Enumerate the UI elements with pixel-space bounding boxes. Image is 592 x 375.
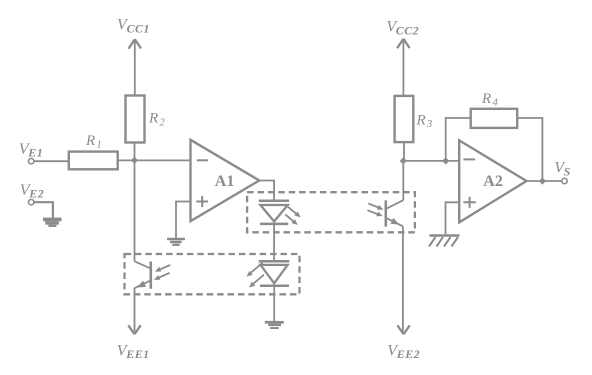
svg-text:1: 1 bbox=[97, 140, 102, 151]
label R2 bbox=[148, 111, 166, 129]
op-amp A1 bbox=[191, 140, 260, 221]
phototransistor T2 light arrows bbox=[367, 203, 383, 216]
node C junction dot bbox=[442, 157, 449, 164]
wire node B down to phototransistor T2 bbox=[402, 161, 404, 200]
LED D1 bbox=[259, 201, 289, 224]
power VEE1 label bbox=[117, 342, 150, 361]
wire VE1 to R1 bbox=[34, 160, 69, 162]
terminal VE2 bbox=[29, 200, 34, 205]
ground D2 bbox=[265, 321, 284, 329]
wire R4 to A2 output bbox=[517, 118, 542, 181]
wire R1 to A1 inverting input bbox=[118, 159, 191, 161]
svg-text:3: 3 bbox=[426, 119, 432, 130]
wire node C up to R4 bbox=[446, 118, 471, 161]
node B junction dot bbox=[400, 157, 407, 164]
svg-text:R: R bbox=[481, 91, 491, 107]
output VS label bbox=[554, 160, 570, 179]
chassis ground A2 bbox=[429, 236, 460, 247]
svg-text:EE1: EE1 bbox=[125, 347, 149, 361]
phototransistor T2 bbox=[386, 200, 404, 226]
node D junction dot bbox=[539, 177, 546, 184]
svg-text:EE2: EE2 bbox=[396, 347, 420, 361]
LED D2 light arrows bbox=[247, 263, 265, 288]
optocoupler box T1/D2 bbox=[125, 254, 300, 294]
wire R3 to node B bbox=[403, 142, 405, 161]
resistor R4 bbox=[471, 109, 518, 128]
wire A2 non-inverting input to ground bbox=[446, 202, 460, 234]
op-amp A2 bbox=[459, 140, 526, 222]
terminal VS bbox=[562, 178, 567, 183]
power VEE1 arrow bbox=[128, 325, 140, 334]
input VE1 label bbox=[19, 141, 43, 160]
wire A1 non-inverting input to ground bbox=[176, 202, 191, 238]
svg-text:E2: E2 bbox=[28, 186, 44, 200]
optocoupler box D1/T2 bbox=[247, 192, 415, 232]
svg-text:CC2: CC2 bbox=[396, 23, 419, 37]
terminal VE1 bbox=[29, 159, 34, 164]
svg-text:E1: E1 bbox=[27, 145, 43, 159]
phototransistor T1 light arrows bbox=[154, 265, 171, 280]
wire node A down to phototransistor T1 bbox=[134, 160, 136, 261]
input VE2 label bbox=[20, 182, 44, 200]
LED D2 bbox=[259, 261, 290, 285]
wire D1 to D2 bbox=[273, 224, 275, 261]
wire R2 bottom to node A bbox=[134, 143, 136, 161]
ground VE2 bbox=[43, 218, 62, 227]
power VCC1 label bbox=[117, 17, 150, 36]
wire D2 to ground bbox=[273, 286, 275, 321]
svg-text:R: R bbox=[416, 113, 426, 129]
svg-text:CC1: CC1 bbox=[127, 22, 150, 36]
resistor R1 bbox=[69, 152, 118, 170]
svg-text:2: 2 bbox=[160, 118, 166, 129]
wire VE2 to ground bbox=[34, 202, 53, 217]
svg-text:4: 4 bbox=[493, 97, 499, 108]
wire node B to A2 inverting input bbox=[403, 160, 459, 162]
LED D1 light arrows bbox=[285, 207, 300, 225]
resistor R3 bbox=[395, 96, 414, 142]
label R4 bbox=[481, 91, 499, 109]
label R3 bbox=[416, 113, 433, 131]
resistor R2 bbox=[126, 96, 145, 143]
node A junction dot bbox=[131, 157, 138, 164]
svg-text:R: R bbox=[148, 111, 158, 127]
svg-text:S: S bbox=[564, 165, 571, 179]
wire A2 output to VS bbox=[527, 180, 562, 182]
label R1 bbox=[85, 133, 102, 151]
svg-text:R: R bbox=[85, 133, 95, 149]
power VCC2 label bbox=[386, 18, 419, 37]
svg-text:A2: A2 bbox=[483, 173, 503, 190]
wire T2 emitter to VEE2 bbox=[402, 226, 404, 331]
power VEE2 label bbox=[387, 342, 420, 361]
wire A1 output to LED D1 bbox=[259, 181, 274, 201]
power VCC1 arrow bbox=[129, 39, 142, 95]
svg-text:A1: A1 bbox=[215, 173, 235, 190]
power VCC2 arrow bbox=[397, 39, 410, 96]
ground A1 bbox=[167, 239, 185, 245]
wire T1 emitter to VEE1 bbox=[134, 288, 136, 332]
power VEE2 arrow bbox=[397, 325, 409, 334]
phototransistor T1 bbox=[135, 261, 151, 289]
